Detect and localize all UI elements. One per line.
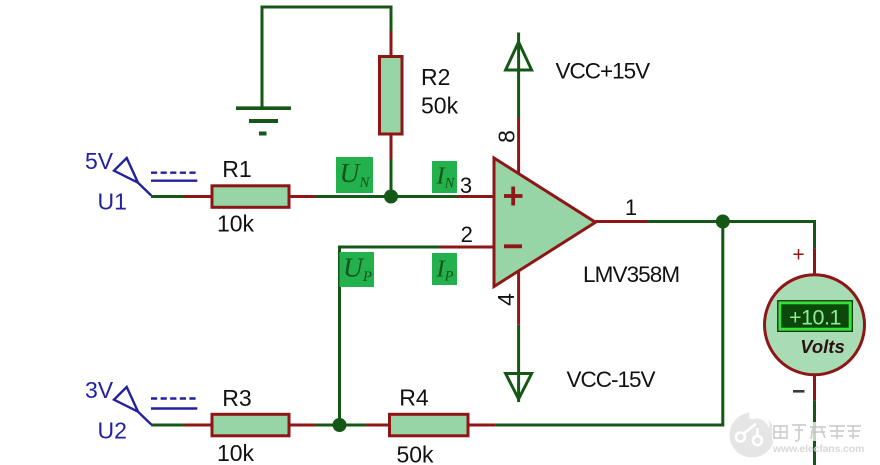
svg-text:50k: 50k	[421, 93, 459, 119]
svg-text:10k: 10k	[217, 211, 255, 237]
svg-text:4: 4	[493, 293, 519, 306]
svg-text:10k: 10k	[217, 440, 255, 465]
svg-text:VCC-15V: VCC-15V	[567, 367, 656, 392]
svg-text:VCC+15V: VCC+15V	[556, 59, 651, 84]
svg-text:www.elecfans.com: www.elecfans.com	[772, 443, 864, 455]
svg-text:+: +	[792, 244, 804, 267]
svg-text:+10.1: +10.1	[789, 306, 841, 330]
svg-text:R4: R4	[399, 385, 429, 411]
svg-text:50k: 50k	[396, 442, 434, 465]
svg-text:LMV358M: LMV358M	[583, 262, 679, 287]
svg-text:U1: U1	[98, 189, 127, 215]
svg-text:U2: U2	[98, 418, 127, 444]
svg-text:1: 1	[625, 195, 637, 220]
svg-text:3V: 3V	[85, 377, 114, 403]
svg-text:R1: R1	[222, 156, 251, 182]
svg-text:3: 3	[460, 173, 472, 198]
svg-text:2: 2	[461, 222, 473, 247]
svg-text:8: 8	[494, 130, 520, 143]
svg-text:Volts: Volts	[800, 336, 845, 357]
svg-text:R3: R3	[222, 385, 251, 411]
svg-text:5V: 5V	[85, 148, 114, 174]
svg-text:R2: R2	[421, 64, 450, 90]
